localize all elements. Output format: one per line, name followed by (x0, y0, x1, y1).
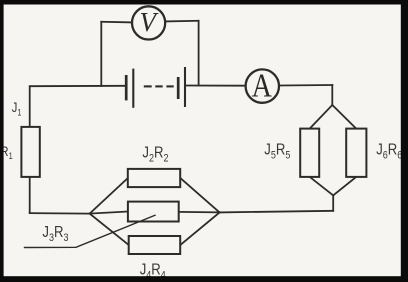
wire: merge vertical down (332, 195, 334, 210)
wire: right junction to R3 (179, 211, 220, 214)
voltmeter V circle (132, 6, 165, 39)
wire: left vertical below R1 (29, 177, 31, 213)
wire: top rail from R1 corner to battery (30, 86, 126, 127)
resistor R2 box (128, 169, 180, 187)
wire: bottom rail right segment (220, 211, 334, 213)
wire: V-loop top-right horizontal (165, 20, 198, 23)
battery cell 2 negative plate (short) (177, 77, 180, 99)
wire: left junction to R3 (90, 212, 128, 214)
svg-text:A: A (252, 66, 273, 104)
wire: bottom rail left segment (30, 212, 90, 215)
wire: merge diagonal from R6 (333, 177, 356, 196)
wire: R3 slider tap (25, 215, 156, 247)
battery cell 1 negative plate (short) (125, 75, 128, 100)
resistor R4 box (129, 236, 181, 254)
wire: right junction to R2 (180, 178, 219, 212)
wire: left junction to R4 (90, 214, 129, 245)
wire: right corner vertical drop (331, 85, 333, 105)
wire: merge diagonal from R5 (310, 177, 334, 196)
wire: split diagonal to R5 (310, 105, 333, 129)
wire: split diagonal to R6 (332, 105, 356, 129)
wire: V-loop left vertical (100, 22, 102, 86)
battery cell 1 positive plate (long) (132, 69, 134, 108)
wire: rail ammeter to right corner (279, 84, 332, 87)
ammeter A circle (246, 69, 279, 102)
wire: V-loop right vertical (198, 21, 200, 85)
resistor R6 box (346, 129, 366, 177)
resistor R3 box (128, 202, 179, 222)
wire: right junction to R4 (180, 212, 219, 245)
dashed wire (omitted cells) (144, 85, 174, 87)
wire: rail battery to ammeter (185, 85, 246, 87)
wire: left junction to R2 (90, 178, 128, 214)
resistor R1 box (21, 127, 39, 177)
resistor R5 box (300, 129, 319, 177)
battery cell 2 positive plate (long) (184, 67, 186, 107)
wire: V-loop top-left horizontal (101, 21, 132, 24)
